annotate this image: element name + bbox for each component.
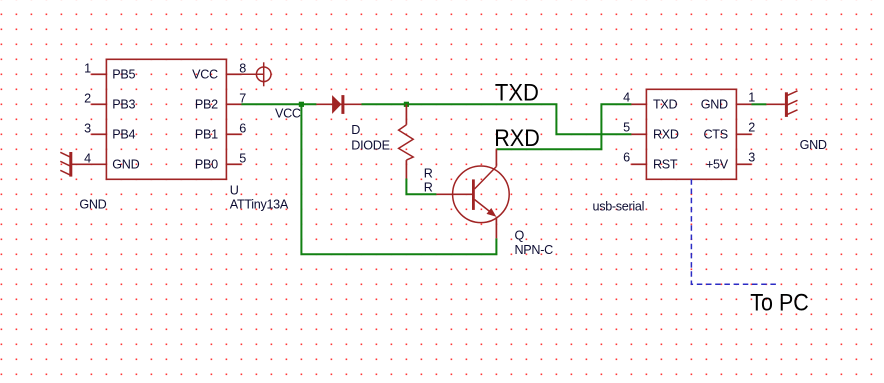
- wire resistor bottom to transistor base: [406, 179, 436, 195]
- svg-text:4: 4: [623, 90, 630, 104]
- usb-serial pin 4 TXD: [631, 103, 646, 105]
- U pin 1 PB5: [91, 73, 106, 75]
- resistor R: [399, 104, 414, 178]
- svg-text:D: D: [351, 123, 360, 137]
- svg-text:PB0: PB0: [195, 157, 218, 171]
- ground symbol at U pin 4: [60, 152, 72, 177]
- svg-text:VCC: VCC: [275, 106, 301, 120]
- svg-text:3: 3: [84, 122, 91, 136]
- U pin 5 PB0: [226, 163, 241, 165]
- transistor Q NPN-C: [436, 149, 509, 238]
- svg-text:PB5: PB5: [112, 67, 135, 81]
- svg-text:6: 6: [239, 122, 246, 136]
- svg-text:2: 2: [84, 92, 91, 106]
- svg-text:U: U: [230, 184, 239, 198]
- usb-serial pin 6 RST: [631, 163, 646, 165]
- svg-text:PB3: PB3: [112, 97, 135, 111]
- U pin 6 PB1: [226, 133, 241, 135]
- svg-text:3: 3: [748, 150, 755, 164]
- usb-serial pin 2 CTS: [736, 133, 751, 135]
- U pin 8 VCC: [226, 73, 241, 75]
- svg-text:ATTiny13A: ATTiny13A: [230, 198, 289, 212]
- svg-text:TXD: TXD: [495, 80, 539, 107]
- svg-text:Q: Q: [515, 229, 525, 243]
- svg-text:5: 5: [623, 120, 630, 134]
- svg-text:8: 8: [239, 62, 246, 76]
- svg-text:5: 5: [239, 152, 246, 166]
- ground symbol at usb-serial pin 1: [766, 91, 797, 117]
- diode D: [316, 95, 361, 114]
- usb-serial pin 1 GND: [736, 103, 751, 105]
- U pin 2 PB3: [91, 103, 106, 105]
- svg-text:RST: RST: [653, 157, 678, 171]
- wire junction A down and across to transistor emitter: [301, 104, 496, 254]
- svg-text:2: 2: [748, 120, 755, 134]
- svg-text:7: 7: [239, 92, 246, 106]
- svg-text:R: R: [424, 180, 433, 194]
- svg-text:+5V: +5V: [706, 157, 729, 171]
- node junction A (VCC net): [299, 102, 304, 107]
- svg-text:VCC: VCC: [192, 67, 218, 81]
- svg-text:GND: GND: [800, 138, 827, 152]
- svg-text:RXD: RXD: [494, 125, 540, 152]
- usb-serial module body: [646, 89, 736, 179]
- svg-text:To PC: To PC: [750, 290, 809, 317]
- svg-text:RXD: RXD: [653, 127, 679, 141]
- svg-text:GND: GND: [79, 198, 106, 212]
- svg-text:1: 1: [748, 90, 755, 104]
- IC U ATTiny13A body: [106, 59, 226, 179]
- svg-text:DIODE: DIODE: [351, 138, 389, 152]
- node junction B (diode / resistor): [404, 102, 409, 107]
- svg-text:PB1: PB1: [195, 127, 218, 141]
- VCC supply symbol at U pin 8: [241, 62, 271, 86]
- U pin 3 PB4: [91, 133, 106, 135]
- svg-text:GND: GND: [701, 97, 728, 111]
- wire usb-serial GND pin 1 to ground: [751, 103, 766, 105]
- svg-text:TXD: TXD: [653, 97, 677, 111]
- svg-text:R: R: [424, 166, 433, 180]
- usb-serial pin 3 +5V: [736, 163, 751, 165]
- svg-text:PB4: PB4: [112, 127, 135, 141]
- usb-serial pin 5 RXD: [631, 133, 646, 135]
- svg-text:6: 6: [623, 150, 630, 164]
- svg-text:4: 4: [84, 152, 91, 166]
- svg-text:1: 1: [84, 62, 91, 76]
- wire diode to junction B and TXD run to usb-serial RXD pin 5: [361, 104, 631, 134]
- svg-text:PB2: PB2: [195, 97, 218, 111]
- svg-text:GND: GND: [112, 157, 139, 171]
- U pin 7 PB2: [226, 103, 241, 105]
- U pin 4 GND wire to ground: [71, 163, 106, 165]
- wire RXD net: collector up and across to usb-serial TXD pin 4: [496, 104, 631, 149]
- dashed connection usb-serial to PC: [691, 179, 778, 284]
- svg-text:CTS: CTS: [704, 127, 728, 141]
- svg-text:NPN-C: NPN-C: [515, 243, 554, 257]
- svg-text:usb-serial: usb-serial: [593, 199, 645, 213]
- wire PB2 to junction A: [241, 103, 316, 105]
